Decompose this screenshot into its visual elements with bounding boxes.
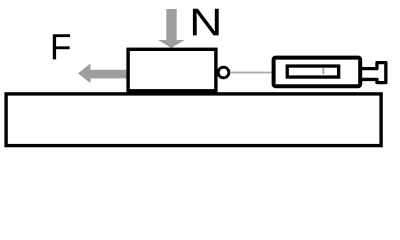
spring scale window: [287, 66, 338, 77]
spring scale handle (plunger neck and end bar): [362, 63, 386, 83]
block M on table: [128, 49, 216, 91]
normal force arrow N (gray, pointing down onto block): [158, 9, 185, 48]
cord from hook to spring scale: [230, 72, 271, 74]
label F: [53, 34, 70, 59]
spring scale body: [274, 58, 361, 87]
friction force arrow F (gray, pointing left from block): [78, 63, 129, 83]
hook ring on block: [218, 67, 229, 78]
label N: [193, 9, 219, 36]
ground table surface: [6, 94, 381, 146]
scale pointer tick: [322, 68, 324, 75]
